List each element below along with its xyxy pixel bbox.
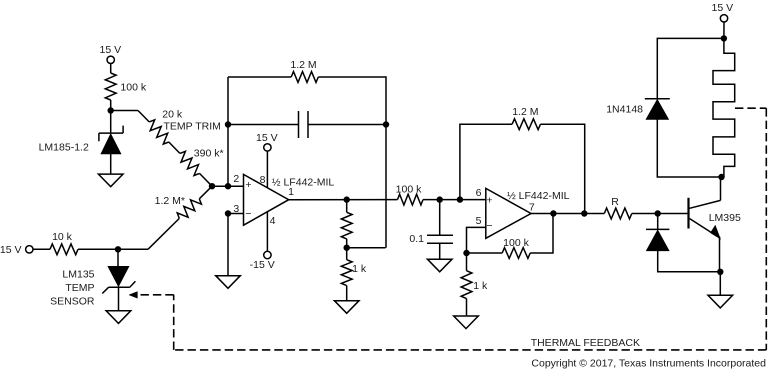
wire node to LM135 bbox=[117, 249, 119, 266]
diode (base-emitter clamp) bbox=[646, 229, 669, 250]
wire 15V to top rail bbox=[723, 22, 725, 38]
svg-text:-15 V: -15 V bbox=[250, 259, 275, 271]
svg-text:Copyright © 2017, Texas Instru: Copyright © 2017, Texas Instruments Inco… bbox=[531, 357, 766, 369]
resistor 10 k bbox=[50, 244, 78, 255]
wire pin 5 step down bbox=[467, 227, 486, 253]
wire 390k to summing node bbox=[200, 173, 213, 186]
op-amp U1 ½ LF442-MIL bbox=[244, 174, 289, 225]
wire feedback left vertical bbox=[227, 77, 229, 186]
resistor 390 k* bbox=[180, 151, 200, 175]
wire out to divider bbox=[346, 200, 348, 213]
ground (LM135) bbox=[106, 311, 131, 324]
dashed thermal feedback (from heater) bbox=[735, 107, 766, 109]
wire node to 0.1 cap bbox=[439, 200, 441, 236]
wire node to 100k bbox=[467, 252, 503, 254]
svg-text:1 k: 1 k bbox=[473, 280, 488, 292]
node: 15V / heater / 1N4148 bbox=[721, 35, 727, 41]
node: base / clamp diode bbox=[655, 210, 661, 216]
wire summing node to op-amp + input (pin 2) bbox=[212, 185, 244, 187]
zener reference LM185-1.2 bbox=[99, 126, 123, 154]
svg-text:1.2 M*: 1.2 M* bbox=[155, 195, 185, 207]
node: 10k / LM135 / 1.2M* junction bbox=[115, 246, 121, 252]
wire 1N4148 to bottom rail bbox=[657, 119, 724, 177]
arrowhead (thermal feedback into LM135) bbox=[129, 292, 137, 299]
svg-text:390 k*: 390 k* bbox=[194, 147, 224, 159]
capacitor 0.1 (filter) bbox=[427, 235, 453, 243]
resistor 100 k (top left) bbox=[105, 73, 116, 100]
node: feedback tap at pin 2 bbox=[225, 183, 231, 189]
dashed thermal feedback bottom bbox=[174, 349, 767, 351]
svg-text:R: R bbox=[611, 196, 619, 208]
wire emitter to ground bbox=[719, 272, 721, 296]
resistor 1.2 M (feedback, stage 1) bbox=[291, 72, 318, 83]
svg-text:15 V: 15 V bbox=[256, 132, 278, 144]
svg-text:6: 6 bbox=[476, 187, 482, 199]
wire pin6 node up to 1.2M stage2 bbox=[460, 124, 512, 199]
svg-text:SENSOR: SENSOR bbox=[50, 296, 95, 308]
wire to 20k bbox=[138, 111, 149, 122]
svg-text:7: 7 bbox=[529, 201, 535, 213]
svg-text:20 k: 20 k bbox=[162, 109, 183, 121]
dashed thermal feedback left vertical bbox=[173, 295, 175, 350]
wire to 1.2M* bbox=[148, 218, 179, 249]
ground (0.1 cap) bbox=[427, 259, 452, 272]
wire LM185 to ground bbox=[110, 154, 112, 174]
svg-text:LM135: LM135 bbox=[62, 269, 94, 281]
node: pin-5 / 100k / 1k bbox=[463, 250, 469, 256]
resistor 1.2 M* bbox=[177, 199, 201, 219]
svg-text:4: 4 bbox=[270, 215, 276, 227]
node pin 3 bbox=[225, 210, 231, 216]
wire 100k up to output bbox=[530, 214, 553, 254]
svg-text:15 V: 15 V bbox=[0, 244, 22, 256]
diode 1N4148 bbox=[645, 99, 670, 120]
svg-text:15 V: 15 V bbox=[711, 2, 733, 14]
resistor 1 k (stage 2) bbox=[461, 271, 472, 299]
svg-text:−: − bbox=[245, 208, 251, 220]
wire collector up bbox=[720, 177, 722, 200]
wire top rail to 1N4148 bbox=[657, 38, 724, 98]
svg-text:−: − bbox=[486, 220, 492, 232]
wire 10k to LM135 node bbox=[78, 248, 148, 250]
wire emitter down bbox=[719, 237, 721, 272]
node: 100k feedback tap bbox=[550, 210, 556, 216]
ground (LM185) bbox=[98, 174, 123, 187]
svg-text:LM185-1.2: LM185-1.2 bbox=[39, 142, 89, 154]
ground (emitter) bbox=[708, 295, 733, 308]
wire 1.2M to output node bbox=[541, 124, 585, 213]
svg-text:1.2 M: 1.2 M bbox=[290, 59, 316, 71]
node: 100k / LM185 / temp-trim junction bbox=[108, 107, 114, 113]
dashed thermal feedback right vertical bbox=[765, 108, 767, 350]
wire divider mid bbox=[346, 239, 348, 260]
wire node to diagonal chain bbox=[111, 110, 138, 112]
capacitor (feedback, stage 1) bbox=[299, 111, 309, 138]
op-amp U2 ½ LF442-MIL bbox=[486, 188, 531, 238]
wire 1k to ground bbox=[466, 299, 468, 316]
wire 15V to R 100k bbox=[110, 64, 112, 74]
terminal circle 15 V left bbox=[26, 246, 33, 253]
svg-text:1.2 M: 1.2 M bbox=[512, 106, 538, 118]
node: RC filter bbox=[437, 196, 443, 202]
wire capacitor to right vertical bbox=[308, 124, 386, 126]
temp sensor LM135 (zener w/ slashed bar) bbox=[102, 267, 135, 294]
node: 1.2M feedback tap stage2 bbox=[457, 196, 463, 202]
terminal circle 15 V top left bbox=[107, 56, 114, 63]
svg-text:LM395: LM395 bbox=[709, 212, 741, 224]
ground (op-amp 1 - input) bbox=[216, 276, 241, 289]
node: divider mid bbox=[344, 245, 350, 251]
svg-text:TEMP TRIM: TEMP TRIM bbox=[164, 121, 221, 133]
resistor 1.2 M (feedback, stage 2) bbox=[512, 119, 540, 130]
terminal circle 15V pin8 bbox=[264, 144, 271, 151]
svg-text:5: 5 bbox=[476, 215, 482, 227]
svg-text:1 k: 1 k bbox=[352, 263, 367, 275]
node: output / divider bbox=[344, 196, 350, 202]
wire 1.2M* to summing node bbox=[199, 186, 212, 199]
node: 1.2M feedback tap bbox=[581, 210, 587, 216]
resistor 100 k (feedback, stage 2) bbox=[502, 248, 530, 259]
resistor (divider top, stage 1) bbox=[341, 212, 352, 239]
svg-text:15 V: 15 V bbox=[99, 44, 121, 56]
wire pin 8 bbox=[266, 151, 268, 188]
dashed thermal feedback to sensor bbox=[138, 294, 174, 296]
terminal circle 15 V right bbox=[720, 15, 727, 22]
svg-text:100 k: 100 k bbox=[503, 237, 529, 249]
wire 1.2M to right feedback vertical bbox=[318, 77, 386, 248]
svg-text:+: + bbox=[245, 179, 251, 191]
wire clamp diode to emitter rail bbox=[658, 251, 721, 272]
wire cap to ground bbox=[439, 243, 441, 259]
junction cap-right bbox=[383, 121, 389, 127]
wire to 10k bbox=[33, 248, 50, 250]
wire divider tap to feedback vertical bbox=[347, 247, 386, 249]
node: heater bottom / collector bbox=[718, 174, 724, 180]
wire node to 1k bbox=[466, 253, 468, 271]
svg-text:+: + bbox=[486, 194, 492, 206]
wire 1k to ground bbox=[346, 286, 348, 301]
wire op-amp2 output bbox=[531, 213, 604, 215]
junction cap-left bbox=[225, 121, 231, 127]
wire pin 3 bbox=[228, 213, 244, 215]
node: emitter / clamp-diode return bbox=[717, 269, 723, 275]
svg-text:100 k: 100 k bbox=[120, 82, 146, 94]
wire node to clamp diode bbox=[657, 214, 659, 230]
wire 20k to 390k bbox=[169, 142, 180, 153]
resistor 1 k (divider bottom, stage 1) bbox=[341, 260, 352, 286]
node: diagonals junction bbox=[209, 183, 215, 189]
wire LM135 to ground bbox=[118, 287, 120, 311]
wire to feedback capacitor bbox=[228, 124, 299, 126]
wire to 1.2M feedback bbox=[228, 76, 291, 78]
svg-text:TEMP: TEMP bbox=[65, 282, 94, 294]
terminal circle -15V pin4 bbox=[264, 251, 271, 258]
wire op-amp1 output bbox=[289, 199, 398, 201]
transistor Q1 LM395 bbox=[689, 198, 721, 239]
svg-text:THERMAL FEEDBACK: THERMAL FEEDBACK bbox=[531, 337, 640, 349]
wire 100k to LM185 node bbox=[110, 100, 112, 133]
ground (divider) bbox=[334, 301, 359, 314]
svg-text:0.1: 0.1 bbox=[409, 233, 424, 245]
ground (1k stage 2) bbox=[454, 316, 479, 329]
resistor 100 k (interstage) bbox=[398, 194, 424, 205]
heater element (meander resistor) bbox=[713, 38, 735, 177]
svg-text:2: 2 bbox=[233, 173, 239, 185]
wire pin 3 to ground bbox=[227, 214, 229, 276]
wire pin 4 bbox=[266, 212, 268, 251]
wire 100k to op-amp2 + input (pin 6) bbox=[423, 199, 486, 201]
resistor 20 k TEMP TRIM bbox=[149, 120, 169, 144]
wire R to transistor base bbox=[632, 213, 689, 215]
svg-text:½ LF442-MIL: ½ LF442-MIL bbox=[272, 176, 335, 188]
resistor R (base) bbox=[604, 208, 632, 219]
svg-text:1N4148: 1N4148 bbox=[606, 104, 643, 116]
svg-text:10 k: 10 k bbox=[52, 231, 73, 243]
svg-text:½ LF442-MIL: ½ LF442-MIL bbox=[507, 190, 570, 202]
svg-text:8: 8 bbox=[260, 174, 266, 186]
svg-text:100 k: 100 k bbox=[396, 183, 422, 195]
